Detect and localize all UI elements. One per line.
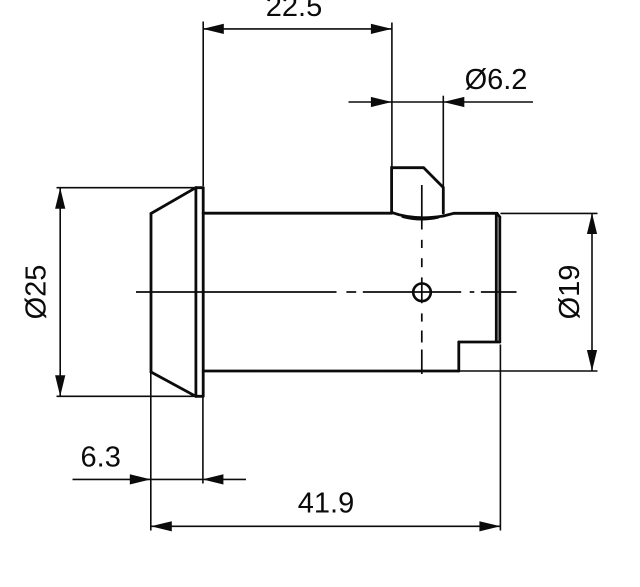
body bottom edge	[203, 370, 459, 373]
horizontal centerline	[136, 291, 337, 293]
arrow 22.5 left	[203, 24, 224, 34]
arrow 6.3 left (points right)	[130, 474, 151, 484]
flange top face edge	[196, 186, 203, 189]
flange bottom face edge	[196, 395, 203, 398]
flange right face	[202, 188, 205, 397]
flange left face	[150, 214, 153, 373]
boss base inner dark arc	[403, 217, 438, 219]
step horizontal	[459, 341, 500, 344]
dimension line 22.5	[203, 28, 392, 30]
extension line flange bottom (d25)	[57, 395, 196, 397]
arrow d6.2 right (points left)	[443, 97, 464, 107]
extension line body bottom right (d19)	[460, 370, 598, 372]
dimension line 6.3	[73, 478, 247, 480]
extension line flange top (d25)	[57, 187, 196, 189]
arrow 22.5 right	[371, 24, 392, 34]
extension line boss left edge up (22.5 right / d6.2 left)	[391, 23, 393, 168]
extension line boss right edge up (d6.2 right)	[442, 96, 444, 187]
body top edge right of boss	[443, 213, 497, 216]
arrow d19 bottom	[587, 350, 597, 371]
flange inner vertical edge	[194, 188, 197, 397]
dimension line d25	[59, 188, 61, 397]
flange top chamfer slant	[151, 188, 196, 214]
dimension line d19	[591, 213, 593, 371]
svg-text:Ø25: Ø25	[21, 265, 53, 320]
dimension texts	[21, 0, 587, 520]
step vertical	[457, 342, 460, 371]
svg-text:22.5: 22.5	[266, 0, 322, 23]
body right face	[498, 217, 501, 342]
body right chamfer	[497, 213, 500, 217]
centerlines	[136, 185, 517, 374]
boss base intersection arc	[392, 212, 444, 217]
hole circle	[413, 284, 431, 302]
body top edge left of boss	[203, 212, 391, 215]
arrow d25 bottom	[55, 375, 65, 396]
svg-text:6.3: 6.3	[81, 442, 121, 474]
arrow d19 top	[587, 213, 597, 234]
body right chamfer inner edge	[495, 215, 498, 342]
svg-text:Ø19: Ø19	[554, 265, 586, 320]
extension line flange right face down (6.3 right)	[202, 398, 204, 484]
svg-text:41.9: 41.9	[298, 488, 354, 520]
arrow 41.9 left	[151, 521, 172, 531]
vertical centerline of hole	[421, 185, 423, 230]
extension line flange left face down (6.3 / 41.9 left)	[150, 373, 152, 531]
arrow 41.9 right	[479, 521, 500, 531]
dimension line d6.2	[349, 101, 534, 103]
boss outline	[392, 168, 444, 213]
arrow d25 top	[55, 188, 65, 209]
extension line flange right face up (22.5 left)	[202, 22, 204, 187]
extension line body right face down (41.9 right)	[499, 345, 501, 531]
part outline: flange left face	[151, 168, 500, 397]
dimension lines	[60, 29, 592, 526]
flange bottom chamfer slant	[151, 372, 196, 396]
extension line body top right (d19)	[501, 212, 598, 214]
arrow d6.2 left (points right)	[371, 97, 392, 107]
arrow 6.3 right (points left)	[202, 474, 223, 484]
svg-text:Ø6.2: Ø6.2	[465, 64, 528, 96]
dimension line 41.9	[151, 525, 501, 527]
arrowheads	[55, 24, 597, 532]
extension lines	[57, 22, 598, 531]
